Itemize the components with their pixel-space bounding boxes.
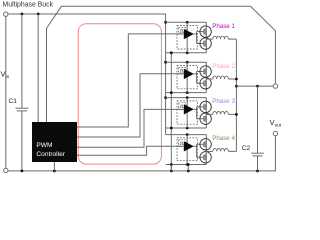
transistor Q3a high-side circle [200, 101, 211, 112]
node phase3 driver-vcc junction top [186, 96, 189, 99]
red loop highlight rounded rect [78, 24, 161, 164]
svg-text:Phase 1: Phase 1 [212, 23, 235, 30]
wire phase2 FET chain vertical [205, 62, 207, 92]
wire L2 to output bus [228, 78, 236, 80]
node gnd bus join [170, 170, 173, 173]
wire switch node phase4 [206, 150, 213, 152]
pwm-input boxlet phase3 [179, 103, 186, 110]
wire C1 bottom lead [21, 111, 23, 171]
wire gate split phase3 [194, 107, 203, 119]
node C2 gnd [256, 170, 259, 173]
wire phase3 driver power vertical [186, 98, 188, 128]
driver block dashed box phase4 [177, 138, 197, 161]
wire phase3 bottom rail [166, 127, 207, 129]
driver block dashed box phase2 [177, 66, 197, 89]
wire gate split phase4 [194, 144, 203, 157]
node phase1 driver-gnd junction bottom [186, 51, 189, 54]
wire L3 to output bus [228, 113, 236, 115]
transistor Q2a high-side circle [200, 66, 211, 77]
transistor Q1a gate bar [203, 29, 205, 34]
transistor Q4a gate bar [203, 142, 205, 147]
pwm waveform glyph phase4 [180, 142, 184, 145]
wire gate drive phase3 [77, 109, 184, 147]
wire PWM gnd lead [53, 162, 55, 171]
transistor Q3a gate bar [203, 104, 205, 109]
wire L1 to output bus [228, 38, 236, 40]
node phase1 gnd tap [170, 51, 173, 54]
transistor Q2a gate bar [203, 69, 205, 74]
node phase4 driver-gnd junction bottom [186, 163, 189, 166]
wire ground bottom rail with right-side rise to Vout- [8, 136, 275, 171]
wire switch node phase3 [206, 113, 213, 115]
transistor Q1b low-side circle [200, 38, 211, 49]
pwm-input boxlet phase1 [179, 28, 186, 35]
wire phase1 bottom rail [166, 52, 207, 54]
node phase1 Vin tap [164, 21, 167, 24]
capacitor C2 plates [251, 152, 264, 154]
capacitor C1 plates [16, 107, 29, 109]
node C2 top tap [256, 85, 259, 88]
wire phase1 top rail [166, 21, 207, 23]
node phase4 gnd tap [170, 163, 173, 166]
node phase1 driver-vcc junction top [186, 21, 189, 24]
wire switch node phase1 [206, 38, 213, 40]
transistor Q3b low-side circle [200, 113, 211, 124]
wire phase1 driver power vertical [186, 22, 188, 53]
wire gate drive phase1 [77, 34, 184, 127]
node phase3 gnd tap [170, 127, 173, 130]
node phase4 gnd join [187, 170, 190, 173]
wire phase3 FET chain vertical [205, 98, 207, 128]
terminal Vin- (bottom-left) [4, 168, 8, 172]
node phase4 stub b top [187, 163, 190, 166]
wire phase4 gnd stub b [187, 165, 189, 171]
pwm waveform glyph phase3 [180, 105, 184, 108]
wire gate split phase2 [194, 72, 203, 84]
wire phase4 gnd stub a [170, 165, 172, 171]
terminal Vout+ [273, 84, 277, 88]
pwm-input boxlet phase2 [179, 67, 186, 74]
node junction PWM supply on Vin rail [37, 13, 40, 16]
wire gate split phase1 [194, 32, 203, 44]
wire phase2 driver power vertical [186, 62, 188, 92]
transistor Q4b low-side circle [200, 152, 211, 163]
wire phase1 FET chain vertical [205, 22, 207, 53]
driver triangle phase4 [184, 141, 194, 151]
wire C2 top lead [257, 86, 259, 153]
node phase2 gnd tap [170, 91, 173, 94]
pwm-input boxlet phase4 [179, 140, 186, 147]
svg-text:Phase 3: Phase 3 [212, 98, 235, 105]
transistor Q2b low-side circle [200, 78, 211, 89]
svg-text:PWM: PWM [36, 142, 52, 149]
inductor L1 [213, 36, 229, 39]
node phase3 Vin tap [164, 96, 167, 99]
wire C2 bottom lead [257, 156, 259, 171]
wire phase4 top rail [166, 134, 207, 136]
node output tap [235, 85, 238, 88]
wire gate drive phase2 [77, 74, 184, 137]
transistor Q1a high-side circle [200, 26, 211, 37]
node L2 join [235, 78, 238, 81]
inductor L2 [213, 76, 229, 79]
driver block dashed box phase3 [177, 101, 197, 124]
wire feedback: PWM top up, diagonal, top rail, down right side to Vout+ [47, 6, 276, 122]
svg-text:Phase 2: Phase 2 [212, 63, 235, 70]
pwm waveform glyph phase1 [180, 30, 184, 33]
svg-text:Controller: Controller [36, 151, 65, 158]
wire phase3 top rail [166, 97, 207, 99]
driver triangle phase3 [184, 104, 194, 114]
wire phase4 driver power vertical [186, 135, 188, 165]
svg-text:Phase 4: Phase 4 [212, 135, 235, 142]
wire switch node phase2 [206, 78, 213, 80]
node L3 join [235, 113, 238, 116]
node C1 gnd [21, 170, 24, 173]
pwm waveform glyph phase2 [180, 70, 184, 73]
transistor Q3b gate bar [203, 116, 205, 121]
node PWM gnd [53, 170, 56, 173]
node phase2 driver-vcc junction top [186, 61, 189, 64]
inductor L3 [213, 111, 229, 114]
svg-text:C2: C2 [242, 145, 251, 152]
driver triangle phase1 [184, 29, 194, 39]
driver block dashed box phase1 [177, 26, 197, 49]
node phase4 driver-vcc junction top [186, 133, 189, 136]
wire phase2 bottom rail [166, 92, 207, 94]
wire phase4 FET chain vertical [205, 135, 207, 165]
wire phase4 bottom rail [166, 164, 207, 166]
transistor Q4a high-side circle [200, 139, 211, 150]
node phase2 Vin tap [164, 61, 167, 64]
wire Vin rail top -> right, bends down into Vin bus x=165.6 [8, 14, 165, 135]
wire PWM supply drop [37, 14, 39, 122]
inductor L4 [213, 148, 229, 151]
wire C1 top lead [21, 14, 23, 108]
node phase2 driver-gnd junction bottom [186, 91, 189, 94]
wire gnd bus x=171.3 [170, 53, 172, 171]
svg-text:C1: C1 [9, 98, 18, 105]
wire left rail Vin- vertical [5, 17, 7, 169]
wire gate drive phase4 [77, 146, 184, 155]
driver triangle phase2 [184, 69, 194, 79]
wire L4 to output bus [228, 150, 236, 152]
wire output bus vertical [235, 39, 237, 151]
transistor Q1b gate bar [203, 41, 205, 46]
transistor Q2b gate bar [203, 81, 205, 86]
svg-text:Multiphase Buck: Multiphase Buck [3, 2, 54, 9]
node phase3 driver-gnd junction bottom [186, 127, 189, 130]
transistor Q4b gate bar [203, 155, 205, 160]
wire output to Vout+ terminal [236, 85, 273, 87]
wire phase2 top rail [166, 61, 207, 63]
op-amp U1 PWM Controller box [32, 122, 77, 162]
node junction C1 branch on Vin rail [21, 13, 24, 16]
terminal Vout- [273, 131, 277, 135]
terminal Vin+ (top-left) [4, 12, 8, 16]
